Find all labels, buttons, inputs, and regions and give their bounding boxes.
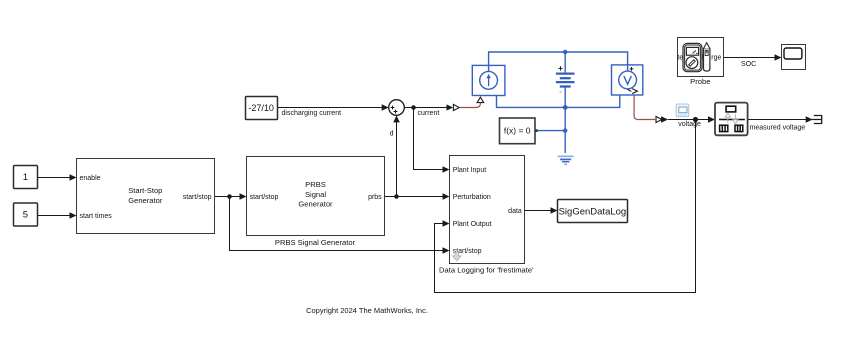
svg-text:f(x) = 0: f(x) = 0	[504, 126, 531, 136]
svg-text:prbs: prbs	[368, 194, 382, 201]
svg-text:Generator: Generator	[128, 196, 163, 205]
svg-text:Perturbation: Perturbation	[453, 194, 491, 201]
svg-text:voltage: voltage	[678, 121, 701, 128]
svg-text:Probe: Probe	[690, 77, 710, 86]
svg-text:Generator: Generator	[298, 199, 333, 208]
svg-text:PRBS Signal Generator: PRBS Signal Generator	[275, 238, 356, 247]
svg-text:current: current	[418, 110, 440, 117]
svg-text:Data Logging for 'frestimate': Data Logging for 'frestimate'	[439, 265, 534, 274]
svg-text:Plant Output: Plant Output	[453, 221, 492, 228]
svg-text:start/stop: start/stop	[183, 194, 212, 201]
svg-text:PRBS: PRBS	[305, 180, 326, 189]
svg-text:SigGenDataLog: SigGenDataLog	[559, 207, 627, 218]
svg-text:-27/10: -27/10	[248, 103, 274, 113]
svg-text:d: d	[390, 131, 394, 138]
svg-text:Start-Stop: Start-Stop	[128, 186, 162, 195]
svg-text:Copyright 2024 The MathWorks,: Copyright 2024 The MathWorks, Inc.	[306, 306, 428, 315]
svg-text:discharging current: discharging current	[282, 110, 342, 117]
svg-text:5: 5	[23, 210, 28, 221]
svg-text:measured voltage: measured voltage	[750, 124, 806, 131]
svg-text:enable: enable	[80, 175, 101, 182]
svg-text:Plant Input: Plant Input	[453, 167, 487, 174]
svg-text:start/stop: start/stop	[250, 194, 279, 201]
svg-text:start times: start times	[80, 213, 113, 220]
svg-text:Signal: Signal	[305, 190, 326, 199]
svg-text:1: 1	[23, 172, 28, 183]
svg-text:te: te	[677, 54, 683, 61]
svg-text:rge: rge	[711, 54, 721, 61]
svg-text:data: data	[508, 208, 522, 215]
svg-text:SOC: SOC	[741, 61, 756, 68]
